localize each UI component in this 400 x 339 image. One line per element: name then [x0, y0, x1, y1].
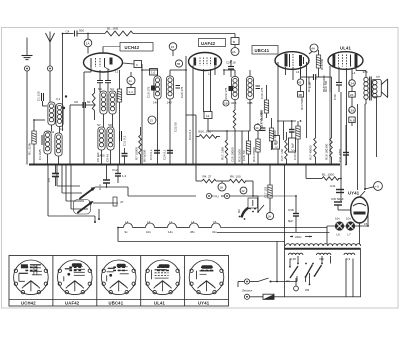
svg-text:1B: 1B — [224, 101, 228, 105]
svg-text:B6 W200: B6 W200 — [143, 149, 147, 162]
smoothing capacitor C42 50uF — [331, 197, 351, 210]
svg-text:50: 50 — [87, 100, 91, 104]
transformer primary winding — [286, 244, 361, 246]
tag circle 139 — [349, 97, 356, 126]
box 07 dial — [248, 198, 258, 208]
PU terminal 1 — [206, 193, 211, 198]
resistor R14 30000 — [269, 118, 277, 150]
svg-text:R17 40000: R17 40000 — [307, 77, 311, 92]
svg-text:R18 180300: R18 180300 — [325, 143, 329, 160]
svg-text:C16 0,1: C16 0,1 — [149, 149, 153, 160]
resistor B1 1M5 — [105, 27, 133, 36]
svg-text:C9 46: C9 46 — [106, 154, 110, 162]
tag box B — [231, 38, 239, 45]
svg-text:H1: H1 — [286, 279, 290, 283]
svg-text:3,1: 3,1 — [56, 97, 61, 101]
resistor A17 880 — [260, 85, 269, 128]
loudspeaker — [372, 75, 388, 98]
svg-text:45v: 45v — [190, 230, 195, 234]
svg-text:UCH42: UCH42 — [125, 45, 140, 50]
socket strip frame — [9, 256, 229, 307]
svg-text:43: 43 — [298, 81, 302, 85]
svg-text:374: 374 — [363, 70, 368, 74]
svg-text:S3: S3 — [98, 87, 102, 91]
svg-text:134: 134 — [349, 81, 354, 85]
svg-text:L4: L4 — [352, 71, 356, 75]
switch output wires — [95, 186, 128, 188]
capacitor C13 — [98, 165, 110, 191]
mains switch — [238, 276, 297, 284]
capacitor C16 — [149, 149, 160, 160]
svg-text:R2: R2 — [237, 209, 241, 213]
UAF42 leads — [192, 66, 194, 165]
capacitor C4 500 — [66, 29, 85, 37]
wire left of switch — [237, 282, 239, 288]
svg-text:6,3: 6,3 — [346, 257, 351, 261]
resistor C17 below bus — [264, 165, 273, 213]
svg-text:8µF: 8µF — [288, 219, 293, 223]
tag circle 2A — [231, 48, 239, 56]
wire anode column — [141, 64, 143, 165]
capacitor C15 2000 — [259, 110, 266, 131]
svg-text:R18 500: R18 500 — [320, 58, 324, 70]
svg-text:C30 175: C30 175 — [260, 87, 264, 99]
capacitor C8 on osc wire — [65, 95, 95, 164]
IFT2 trimmer cap — [256, 86, 265, 99]
capacitor C38 8uF — [253, 196, 299, 232]
wire ground to chassis bus — [26, 71, 28, 165]
svg-text:C29 175: C29 175 — [224, 87, 228, 99]
PU terminal 2 — [224, 193, 229, 198]
tone switch contacts — [257, 211, 259, 213]
svg-text:R14 30000: R14 30000 — [273, 130, 277, 145]
voltage selector — [286, 256, 353, 297]
B+ rail from OT primary — [365, 100, 367, 105]
svg-text:C34 0,1: C34 0,1 — [293, 149, 297, 160]
svg-text:14v: 14v — [168, 230, 173, 234]
svg-text:C24 0,1: C24 0,1 — [163, 149, 167, 160]
padder leads to bus — [101, 150, 103, 165]
heater labels — [125, 220, 218, 234]
resistor R5 on k-line — [117, 70, 121, 165]
wire corner 277/283 — [277, 120, 296, 122]
socket UAF42 — [58, 260, 93, 295]
svg-text:C23 0,1: C23 0,1 — [188, 129, 192, 140]
tag box F — [134, 61, 142, 68]
svg-text:UY41: UY41 — [198, 301, 210, 306]
svg-text:C22 50: C22 50 — [174, 122, 178, 132]
antenna terminal — [47, 66, 52, 71]
svg-text:C40: C40 — [333, 94, 337, 100]
svg-text:UCH42: UCH42 — [21, 301, 36, 306]
svg-text:R15 2200: R15 2200 — [238, 149, 242, 162]
wire grid column — [185, 56, 187, 165]
socket UL41 — [145, 260, 180, 295]
padder coil S7 — [98, 127, 105, 150]
tag circle +Ua — [374, 182, 383, 191]
svg-text:F: F — [136, 63, 138, 67]
resistor R19 27000 — [252, 123, 260, 165]
IF transformer 1 secondary — [166, 76, 173, 99]
secondary winding 3,15v — [289, 253, 303, 261]
resistor C27 160 zigzag — [280, 132, 287, 165]
wire 242 — [241, 131, 243, 165]
resistor R17 1M5 vertical — [221, 131, 228, 165]
wire column 232 — [220, 130, 227, 132]
chassis bus — [29, 164, 340, 166]
IF transformer 1 primary — [154, 76, 161, 99]
wire 286 below bus — [284, 165, 286, 249]
aux line to lamp box — [217, 232, 330, 234]
tag circle 18 — [218, 183, 226, 191]
svg-text:L2: L2 — [60, 127, 64, 131]
svg-text:C13: C13 — [98, 184, 102, 190]
svg-text:7B: 7B — [177, 62, 181, 66]
capacitor C24 — [163, 149, 174, 160]
svg-text:L1: L1 — [169, 220, 173, 224]
transformer core bar — [285, 248, 361, 250]
svg-text:9v: 9v — [125, 230, 129, 234]
svg-text:26: 26 — [350, 93, 354, 97]
electrolytic C 8uF — [289, 121, 296, 152]
tag box 12 — [204, 112, 212, 119]
svg-text:C4: C4 — [66, 30, 70, 34]
tag box 13b — [205, 117, 212, 123]
svg-text:L3: L3 — [296, 70, 300, 74]
svg-text:220v: 220v — [295, 235, 302, 239]
svg-text:1H: 1H — [268, 215, 272, 219]
smoothing capacitor C41 50uF — [330, 165, 344, 203]
svg-text:R17, 1M5: R17, 1M5 — [221, 147, 225, 160]
wires left coil block to bus — [51, 125, 53, 131]
rectifier UY41 — [348, 191, 368, 245]
svg-text:10v: 10v — [146, 230, 151, 234]
svg-text:R7 10000: R7 10000 — [135, 147, 139, 160]
svg-text:C1 225: C1 225 — [37, 91, 41, 101]
svg-text:15: 15 — [171, 45, 175, 49]
svg-text:L5: L5 — [213, 220, 217, 224]
svg-text:13: 13 — [150, 119, 154, 123]
padder coil S8 — [107, 127, 114, 150]
antenna coil L1 block — [37, 91, 64, 127]
svg-text:L7: L7 — [348, 232, 352, 236]
resistor R4 27 — [196, 165, 216, 183]
svg-text:B16, 1M5: B16, 1M5 — [199, 130, 212, 134]
dial lamp L6 — [335, 217, 344, 237]
svg-text:S7: S7 — [97, 123, 101, 127]
UBC41 leads — [277, 62, 279, 165]
svg-text:B1, 1M5: B1, 1M5 — [107, 27, 119, 31]
tag box 1,6 — [150, 69, 158, 76]
UCH42 cathode/grid leads — [99, 70, 101, 80]
svg-text:C41: C41 — [330, 184, 336, 188]
svg-text:+U: +U — [375, 185, 379, 189]
svg-text:B: B — [233, 40, 235, 44]
svg-text:4B: 4B — [298, 93, 302, 97]
svg-text:47: 47 — [120, 200, 124, 204]
svg-text:PU: PU — [215, 195, 219, 199]
svg-text:UBC41: UBC41 — [109, 301, 124, 306]
svg-text:1b: 1b — [255, 126, 259, 130]
svg-text:139: 139 — [349, 108, 354, 112]
svg-text:C12: C12 — [112, 168, 118, 172]
svg-text:12: 12 — [241, 189, 245, 193]
lamp feed wire down to winding — [326, 228, 328, 245]
trimmer C11 — [120, 131, 127, 146]
screen resistor R17 40000 — [307, 62, 317, 165]
node dots on bus — [103, 164, 105, 166]
resistor R1 310k — [28, 120, 37, 165]
svg-text:32B: 32B — [231, 101, 236, 105]
svg-text:B1, 1000: B1, 1000 — [322, 173, 334, 177]
label 220v — [295, 235, 302, 239]
wire antenna down — [49, 71, 51, 102]
node B+ — [364, 188, 366, 190]
tag circle 134 — [349, 68, 356, 97]
capacitor C31 4700 — [338, 125, 349, 165]
coupling capacitor C35 — [301, 74, 332, 88]
anode tag circle 43 — [297, 67, 303, 98]
ground terminal — [24, 66, 29, 71]
svg-text:10v: 10v — [346, 217, 351, 221]
svg-text:L3: L3 — [125, 220, 129, 224]
svg-text:18: 18 — [220, 186, 224, 190]
wire switch to heater return — [276, 242, 278, 282]
wave band coil L2 block — [42, 127, 64, 156]
tag circle 1H — [266, 212, 273, 219]
svg-text:3,15: 3,15 — [290, 257, 296, 261]
resistor R 1000 to rectifier — [306, 165, 341, 181]
IFT2 leads — [234, 70, 236, 77]
svg-text:C8: C8 — [74, 100, 78, 104]
svg-text:1,4: 1,4 — [129, 90, 134, 94]
tube UBC41 — [252, 46, 309, 75]
svg-text:R1, 310k: R1, 310k — [28, 142, 32, 155]
resistor R18 — [316, 50, 324, 77]
socket UCH42 — [14, 260, 49, 295]
svg-text:C31 4700: C31 4700 — [338, 149, 342, 162]
svg-text:C3 1M5: C3 1M5 — [38, 149, 42, 160]
svg-text:L2: L2 — [208, 72, 212, 76]
tag circle 15 — [169, 43, 177, 51]
svg-text:500: 500 — [79, 29, 84, 33]
top bus wire — [133, 33, 235, 35]
svg-text:C38: C38 — [288, 208, 294, 212]
capacitor C14 — [122, 148, 128, 165]
resistor B16 1M5 — [196, 130, 220, 139]
svg-text:1,2: 1,2 — [122, 174, 127, 178]
svg-text:L2: L2 — [147, 220, 151, 224]
tube UCH42 — [84, 43, 154, 74]
socket UBC41 — [101, 260, 136, 295]
svg-text:L6: L6 — [337, 232, 341, 236]
svg-text:R19 27000: R19 27000 — [252, 147, 256, 162]
svg-text:C19 175: C19 175 — [147, 86, 151, 98]
svg-text:UL41: UL41 — [340, 46, 352, 51]
svg-text:1A: 1A — [86, 42, 90, 46]
svg-text:31v: 31v — [212, 230, 217, 234]
oscillator coil S3 — [100, 91, 107, 114]
svg-text:4A: 4A — [311, 47, 315, 51]
tag circle 41 — [127, 77, 135, 85]
transformer box — [285, 249, 361, 297]
UL41 anode to output transformer — [355, 67, 357, 71]
band switch wires below bus — [56, 165, 58, 187]
top bus to C4 — [63, 33, 74, 35]
tag circle 12b — [240, 187, 247, 194]
IFT2 trimmer — [224, 86, 233, 99]
svg-text:2A: 2A — [232, 50, 236, 54]
UL41 cathode leads — [346, 68, 348, 165]
socket UY41 — [189, 260, 224, 295]
svg-text:CW 50µF: CW 50µF — [331, 197, 344, 201]
small trimmer by switch — [113, 197, 117, 206]
tube UAF42 — [189, 39, 226, 76]
ground — [22, 38, 33, 60]
dial lamp L7 — [346, 217, 355, 237]
tag circle 1B — [223, 100, 229, 106]
tag circle 13 — [148, 116, 156, 124]
svg-text:S1 S2: S1 S2 — [46, 130, 55, 134]
IFT1 trimmer — [147, 86, 156, 99]
svg-text:L1: L1 — [115, 70, 119, 74]
svg-text:C27, 160: C27, 160 — [280, 148, 284, 161]
resistor C28 50 — [242, 131, 251, 165]
heater return left loop — [117, 228, 119, 242]
wire OT secondary return — [376, 97, 378, 157]
wire C4 feed vertical — [62, 34, 64, 132]
svg-text:L4: L4 — [191, 220, 195, 224]
svg-text:UAF42: UAF42 — [201, 41, 216, 46]
tag box 1,4 — [127, 88, 135, 95]
svg-text:B1B 583300: B1B 583300 — [322, 75, 326, 92]
tube UL41 — [328, 44, 363, 76]
IF transformer 2 secondary — [246, 77, 253, 100]
svg-text:C11 0,3: C11 0,3 — [123, 135, 127, 146]
svg-text:a,b: a,b — [376, 75, 381, 79]
svg-text:UY41: UY41 — [348, 191, 360, 196]
IFT1 leads to bus — [157, 99, 159, 165]
tag circle 7B — [175, 60, 182, 67]
svg-text:Secteur: Secteur — [242, 289, 253, 293]
svg-text:R17 40000: R17 40000 — [309, 145, 313, 160]
wire C4 to R B1 — [77, 33, 105, 35]
oscillator coil S4 — [109, 91, 116, 114]
svg-text:UBC41: UBC41 — [255, 48, 270, 53]
svg-text:C8 110: C8 110 — [96, 152, 100, 162]
svg-text:10v: 10v — [335, 217, 340, 221]
capacitor C26 16 — [226, 61, 236, 78]
mains fuse — [244, 294, 284, 299]
svg-text:UAF42: UAF42 — [65, 301, 80, 306]
svg-text:12: 12 — [206, 114, 210, 118]
capacitor C40 — [333, 67, 342, 100]
svg-text:R16 5000: R16 5000 — [300, 97, 304, 110]
svg-text:N,8: N,8 — [350, 119, 355, 123]
svg-text:C25 10000: C25 10000 — [231, 147, 235, 162]
svg-text:C5: C5 — [47, 178, 51, 182]
svg-text:S4: S4 — [110, 87, 114, 91]
band switch S — [74, 187, 96, 214]
tag circle 4A — [310, 44, 318, 52]
heater chain line — [118, 223, 368, 228]
tag circle 1b — [254, 124, 261, 131]
resistor R6 100 — [222, 175, 253, 197]
svg-text:2M: 2M — [305, 288, 310, 292]
svg-text:UL41: UL41 — [154, 301, 166, 306]
UL41 grid lead with resistor — [324, 66, 330, 92]
resistor R3 zigzag — [92, 93, 95, 110]
secondary winding 6,3v — [344, 253, 355, 261]
resistor R7 vertical zigzag — [135, 127, 142, 165]
svg-text:41: 41 — [129, 79, 133, 83]
capacitor C5 — [97, 81, 103, 83]
antenna A — [46, 32, 55, 67]
boxed label C30 0,1 — [273, 136, 280, 150]
secondary winding 31v — [317, 253, 331, 261]
output transformer S21 — [363, 70, 377, 101]
screen resistor R18 180300 — [322, 75, 332, 164]
svg-text:15: 15 — [364, 222, 368, 226]
wire column 357 — [357, 104, 359, 190]
svg-text:A17, 880/800: A17, 880/800 — [260, 110, 264, 128]
capacitor C7 — [105, 81, 111, 83]
svg-text:R6, 100: R6, 100 — [230, 175, 241, 179]
svg-text:R4, 27: R4, 27 — [203, 175, 212, 179]
svg-text:C28, 50: C28, 50 — [242, 150, 246, 161]
capacitor C6 — [47, 165, 59, 187]
svg-text:149: 149 — [167, 101, 172, 105]
tag circle 1A — [84, 34, 92, 54]
svg-text:C20 175: C20 175 — [180, 86, 184, 98]
svg-text:1,6: 1,6 — [151, 71, 156, 75]
capacitor C12 — [112, 165, 127, 184]
svg-text:S8: S8 — [108, 123, 112, 127]
volume pot R2 — [237, 204, 256, 220]
IF transformer 2 primary — [231, 77, 238, 100]
osc coil leads — [103, 114, 105, 127]
IFT1 trimmer cap 2 — [176, 86, 185, 99]
wire column 298 with resistor — [297, 121, 299, 126]
